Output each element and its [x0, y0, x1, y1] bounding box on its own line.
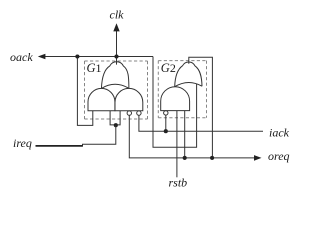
wire G1 bubble1 down to oreq line — [129, 115, 255, 157]
G1 dashed box — [85, 61, 148, 119]
svg-text:oreq: oreq — [268, 149, 290, 163]
gate G1 OR — [101, 62, 128, 89]
wire G2 OR output to oreq — [189, 57, 213, 158]
bubble G1 input b — [137, 111, 141, 115]
svg-text:ireq: ireq — [13, 136, 32, 150]
svg-text:iack: iack — [269, 125, 290, 139]
wire oack feedback to G1 left AND input — [77, 57, 92, 126]
arrow oreq (right) — [254, 155, 262, 161]
wire G2 AND input3 to oreq — [184, 111, 186, 158]
wire ireq leader — [36, 145, 83, 147]
gate G1 AND right — [115, 88, 143, 110]
node junction oreq/G2 AND input — [183, 156, 187, 160]
wire G2 bubble down to iack — [165, 115, 167, 131]
wire G1 middle inputs U — [110, 111, 120, 125]
gate G1 AND left — [88, 88, 115, 110]
wire clk to G2 OR input — [153, 57, 197, 148]
node junction clk/top wire — [114, 54, 118, 58]
wire G1 bubble2 down to iack line — [139, 115, 263, 131]
node junction oreq/OR output — [210, 156, 214, 160]
svg-text:clk: clk — [110, 7, 125, 21]
node junction oack/top wire — [75, 54, 79, 58]
wire rstb — [176, 111, 178, 178]
svg-text:G1: G1 — [87, 61, 102, 75]
arrow oack (left) — [38, 54, 46, 60]
gate G2 OR — [175, 62, 202, 87]
bubble G1 input a — [127, 111, 131, 115]
wire top horizontal oack/clk — [39, 56, 153, 58]
wire ireq riser — [83, 125, 116, 146]
svg-text:G2: G2 — [161, 61, 176, 75]
wire clk vertical — [116, 31, 118, 65]
gate G2 AND — [161, 87, 190, 111]
bubble G2 input — [164, 111, 168, 115]
svg-text:rstb: rstb — [169, 175, 188, 189]
node junction iack/G2 bubble — [164, 129, 168, 133]
arrow clk (up) — [113, 23, 119, 31]
node junction ireq/U — [114, 123, 118, 127]
G2 dashed box — [158, 61, 206, 118]
svg-text:oack: oack — [10, 50, 33, 64]
